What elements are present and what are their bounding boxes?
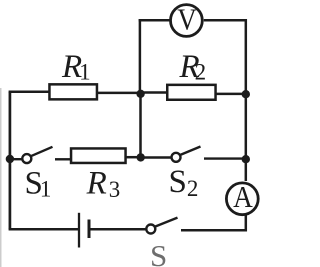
wire R1 to node B [98, 92, 142, 95]
wire top-left to R1 [9, 91, 51, 94]
resistor R1 [49, 84, 96, 99]
wire ammeter to bottom corner [245, 215, 248, 231]
wire voltmeter branch top left [139, 19, 171, 22]
node E junction dot [137, 153, 145, 161]
switch S2 lever [180, 147, 201, 156]
wire voltmeter branch vertical left [139, 19, 142, 94]
ammeter U2 [226, 183, 258, 215]
wire left rail [9, 92, 12, 230]
wire node D to S1 [10, 158, 23, 160]
switch S lever [155, 218, 178, 227]
node B junction dot [136, 90, 144, 98]
wire node B to R2 [141, 91, 168, 94]
battery BT1 long plate [78, 213, 80, 248]
wire S1 to R3 [55, 158, 71, 160]
switch S open circle [146, 225, 155, 234]
wire middle rail [139, 93, 142, 157]
wire bottom right [181, 229, 247, 232]
switch S2 open circle [172, 153, 181, 162]
wire battery to switch S [90, 228, 146, 231]
resistor R3 [71, 148, 126, 163]
node D junction dot on left rail [6, 155, 14, 163]
node C junction dot [242, 90, 250, 98]
wire voltmeter branch top right [204, 19, 247, 22]
switch S1 open circle [22, 154, 31, 163]
svg-text:A: A [233, 180, 253, 214]
wire bottom left [9, 228, 78, 231]
wire right rail to ammeter [245, 158, 248, 181]
wire R3 to node E [127, 156, 142, 159]
svg-text:S: S [150, 238, 167, 267]
switch S1 lever [31, 147, 53, 156]
wire R2 to node C [216, 93, 248, 96]
battery BT1 short plate [88, 220, 91, 239]
node F junction dot [242, 155, 250, 163]
svg-text:V: V [177, 3, 196, 37]
wire right rail upper [245, 19, 248, 160]
voltmeter U1 [171, 5, 203, 37]
resistor R2 [167, 85, 215, 100]
wire S2 to node F [204, 157, 247, 159]
wire node E to S2 [141, 156, 172, 158]
